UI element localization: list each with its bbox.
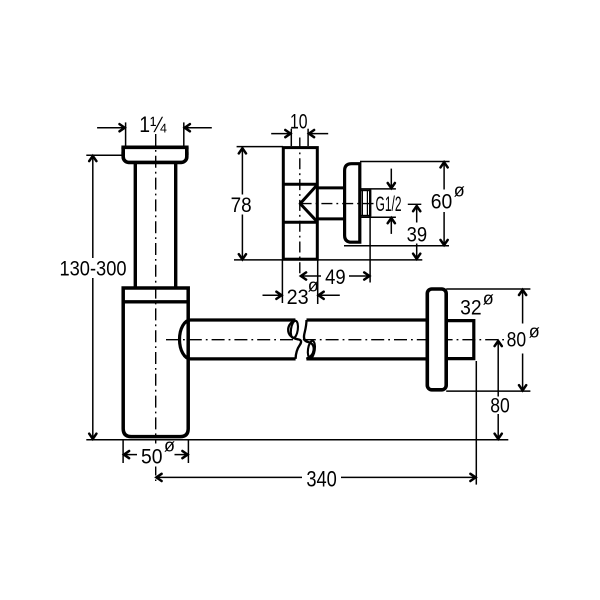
dimension 78 xyxy=(231,147,423,260)
dimension 49 xyxy=(301,217,370,290)
dimension 50 dia xyxy=(123,435,188,468)
svg-text:78: 78 xyxy=(231,194,252,217)
outlet pipe right segment xyxy=(306,320,427,359)
trap axis centerline xyxy=(155,134,157,481)
detail rosette body xyxy=(283,148,317,260)
dimension 60 dia xyxy=(344,162,465,246)
svg-text:49: 49 xyxy=(325,266,346,289)
svg-text:ø: ø xyxy=(454,181,465,201)
wall pipe stub xyxy=(446,321,474,359)
dimension 23 dia xyxy=(263,260,340,309)
detail vertical axis xyxy=(299,138,301,277)
svg-text:G1/2: G1/2 xyxy=(376,193,402,216)
svg-text:1¼: 1¼ xyxy=(139,112,167,137)
dimension 130-300 xyxy=(60,155,127,439)
detail thread nipple xyxy=(360,190,370,217)
wall flange xyxy=(427,289,446,390)
detail rosette joint lines xyxy=(283,184,317,222)
svg-text:340: 340 xyxy=(306,466,337,491)
svg-text:130-300: 130-300 xyxy=(60,257,127,281)
svg-text:39: 39 xyxy=(407,223,428,246)
baseline extension xyxy=(86,439,508,441)
svg-text:80: 80 xyxy=(490,394,510,417)
outlet pipe left segment xyxy=(191,320,296,359)
detail flange disc xyxy=(345,164,360,243)
svg-text:60: 60 xyxy=(431,190,453,213)
dimension 80 xyxy=(490,341,510,439)
dimension G1/2 xyxy=(361,169,402,234)
pipe axis centerline xyxy=(166,339,505,341)
trap cup lid joint xyxy=(123,300,188,303)
detail cone chevron xyxy=(300,185,317,222)
dimension 340 xyxy=(156,361,476,491)
detail horizontal axis xyxy=(301,203,422,206)
svg-text:ø: ø xyxy=(483,289,494,309)
trap cup xyxy=(123,288,188,437)
svg-text:10: 10 xyxy=(290,111,308,134)
svg-text:23: 23 xyxy=(287,286,309,309)
pipe break right xyxy=(304,320,316,359)
trap inlet nut xyxy=(121,147,188,162)
svg-text:ø: ø xyxy=(164,435,175,455)
detail connector xyxy=(317,188,344,219)
dimension 1 1/4 xyxy=(97,112,212,145)
outlet pipe inlet cap xyxy=(180,320,191,359)
dimension 39 xyxy=(407,206,428,259)
trap inlet tube xyxy=(135,164,175,288)
svg-text:80: 80 xyxy=(507,328,527,351)
dimension 80 dia xyxy=(446,289,540,391)
svg-text:50: 50 xyxy=(141,445,163,468)
label 32 dia xyxy=(460,289,494,320)
svg-text:ø: ø xyxy=(308,275,319,295)
svg-text:32: 32 xyxy=(460,296,482,319)
pipe break left xyxy=(288,320,301,359)
dimension 10 xyxy=(271,111,328,147)
svg-text:ø: ø xyxy=(529,322,540,342)
